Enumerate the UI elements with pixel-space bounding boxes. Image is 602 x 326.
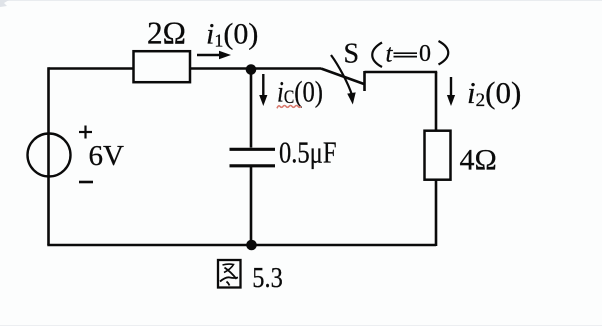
svg-text:2Ω: 2Ω: [147, 15, 186, 51]
svg-text:t: t: [386, 41, 394, 68]
svg-text:4Ω: 4Ω: [460, 144, 497, 177]
svg-text:i2(0): i2(0): [467, 75, 521, 111]
svg-text:5.3: 5.3: [252, 263, 282, 294]
svg-text:i1(0): i1(0): [206, 18, 258, 51]
svg-text:6V: 6V: [89, 140, 125, 172]
svg-text:0.5μF: 0.5μF: [279, 135, 337, 170]
svg-text:0: 0: [419, 41, 431, 67]
svg-text:S: S: [344, 39, 360, 70]
